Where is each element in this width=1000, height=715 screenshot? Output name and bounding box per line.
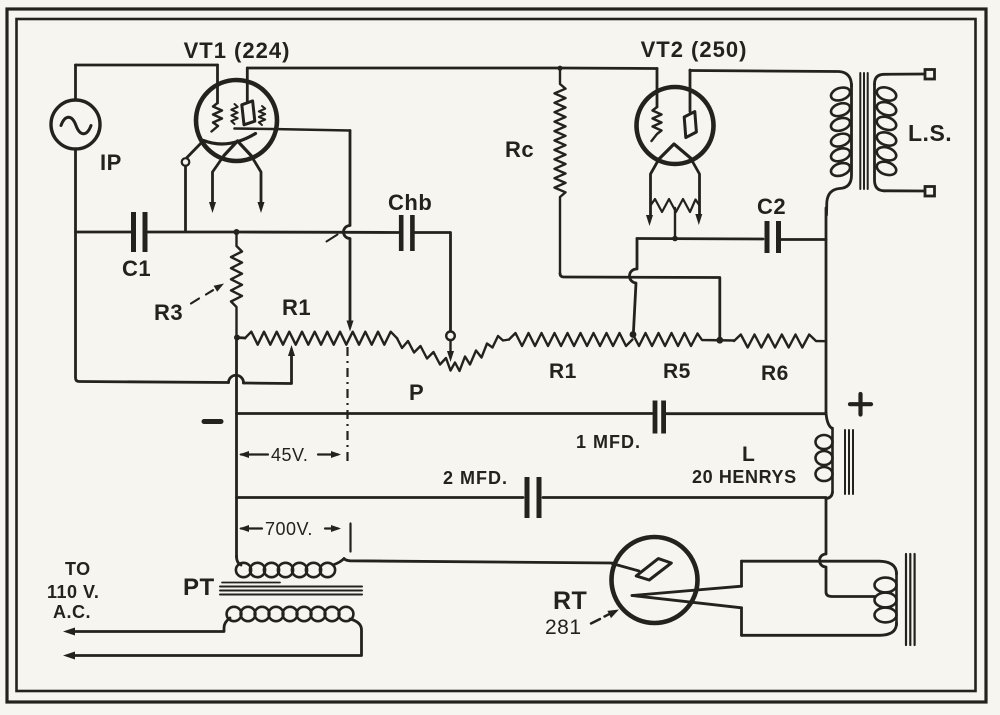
heater arrow right [695, 214, 702, 225]
hum-balance center tap [674, 208, 676, 239]
dim 45V arrow left [241, 453, 268, 455]
filament transformer top rail [742, 561, 897, 574]
svg-text:PT: PT [183, 574, 215, 601]
wire minus rail right [666, 412, 826, 415]
lower wiper arrow up [288, 345, 295, 356]
svg-text:1 MFD.: 1 MFD. [576, 432, 641, 452]
tube VT1 envelope [196, 80, 277, 161]
P wiper arrow [449, 341, 451, 353]
svg-text:C2: C2 [757, 194, 786, 219]
PT core lines [222, 582, 280, 584]
svg-text:281: 281 [545, 616, 582, 639]
VT2 heater lead right [691, 158, 700, 216]
wire plate rail VT1 to VT2 [247, 67, 657, 70]
VT1 plate lead up [246, 68, 249, 101]
wire IP to C1 [76, 231, 132, 234]
svg-text:TO: TO [65, 559, 91, 579]
capacitor C2 plates [765, 221, 770, 253]
svg-text:L: L [742, 443, 755, 466]
junction dot R3 bottom [234, 335, 240, 341]
wire grid return with hop [629, 239, 637, 332]
output transformer secondary loops [875, 85, 898, 103]
resistor R1 lower zigzag [509, 333, 633, 346]
svg-text:R1: R1 [549, 360, 577, 383]
wire junction to Chb [237, 231, 399, 234]
wire IP return lead down [76, 149, 229, 383]
svg-text:L.S.: L.S. [908, 120, 952, 146]
resistor Rc [555, 68, 566, 274]
RT plate symbol [636, 559, 671, 580]
wire 2MFD rail right [543, 496, 826, 499]
tube VT2 envelope [637, 87, 714, 164]
VT2 plate symbol [684, 112, 696, 138]
svg-text:P: P [409, 380, 424, 405]
wire top rail to VT1 grid [76, 64, 218, 67]
PT primary loops [236, 563, 251, 577]
svg-text:R5: R5 [663, 360, 691, 383]
resistor R6 zigzag [734, 335, 826, 348]
VT1 screen bottom lead [235, 129, 351, 131]
svg-text:A.C.: A.C. [53, 602, 91, 622]
svg-text:RT: RT [553, 587, 587, 615]
label minus sign [204, 419, 221, 424]
filament winding loops [875, 578, 897, 593]
tube RT envelope [612, 537, 698, 623]
wire cathode terminal down [184, 166, 187, 231]
RT filament upper arm [632, 586, 742, 595]
capacitor Chb plates [399, 215, 404, 251]
wire VT1 grid drop [216, 65, 219, 103]
VT2 plate lead up [689, 70, 692, 112]
wire stub to R1 pot [237, 336, 246, 339]
resistor R3 zigzag [231, 232, 242, 338]
wire choke to rectifier CT with hop [820, 499, 876, 597]
dim 700V tick [349, 524, 351, 552]
wire left bus R3 to PT [235, 338, 238, 558]
VT2 grid lead drop [656, 69, 659, 108]
junction dot C1 rail [234, 229, 240, 235]
PT primary entry [237, 556, 242, 565]
VT2 control grid zigzag [652, 107, 662, 141]
wire C2 to plus rail [781, 238, 826, 241]
VT1 control grid zigzag [212, 103, 223, 132]
signal source IP circle [51, 100, 100, 149]
VT2 heater triangle [659, 144, 691, 159]
choke L spine [831, 428, 834, 492]
svg-text:Chb: Chb [388, 190, 432, 215]
VT1 cathode arc [204, 134, 256, 144]
VT1 cathode lead to terminal [187, 141, 204, 158]
output transformer secondary top lead [875, 74, 925, 84]
RT filament lower arm [632, 596, 742, 608]
svg-text:45V.: 45V. [271, 445, 308, 465]
speaker terminal bottom [925, 187, 935, 197]
PT primary right lead [333, 559, 612, 566]
P wiper terminal circle [446, 332, 455, 341]
VT1 heater lead left with arrow [213, 156, 225, 205]
svg-text:R3: R3 [154, 300, 183, 325]
dim 45V arrow right [318, 453, 338, 455]
filament transformer left edge top [740, 561, 743, 586]
wire hum tap rail to C2 [637, 237, 763, 240]
output transformer secondary spine [875, 84, 885, 191]
svg-text:VT1 (224): VT1 (224) [184, 38, 291, 63]
junction dot R5-R6 tap [716, 337, 723, 344]
wire IP top lead [74, 65, 77, 100]
hop over R3 vertical [229, 375, 244, 383]
wire Chb to P wiper drop [415, 233, 451, 332]
VT1 plate symbol [242, 101, 255, 125]
svg-text:Rc: Rc [505, 137, 534, 162]
dim 700V arrow left [241, 527, 262, 529]
R3 pointer dashed arrow [191, 299, 199, 304]
hum-balance resistor zigzag [651, 199, 700, 212]
wire PT to RT plate [612, 564, 639, 572]
svg-text:2 MFD.: 2 MFD. [443, 468, 508, 488]
svg-text:R1: R1 [282, 295, 311, 320]
stray diagonal tick [327, 235, 338, 242]
heater arrow left [646, 215, 653, 226]
svg-text:C1: C1 [122, 256, 151, 281]
junction dot center tap [672, 236, 678, 242]
choke bottom curve [826, 492, 833, 499]
wire plus rail vertical [825, 208, 828, 413]
VT1 heater triangle [224, 141, 251, 156]
dim 700V arrow right [325, 527, 338, 529]
PT secondary right lead to AC [72, 619, 362, 656]
wire C1 to junction [148, 231, 237, 234]
wire Rc bottom to R5-R6 tap [560, 274, 720, 341]
potentiometer P v-shaped zigzag [397, 336, 509, 371]
resistor R5 zigzag [633, 333, 734, 346]
wire minus rail left [237, 412, 653, 415]
svg-text:R6: R6 [761, 362, 789, 385]
svg-text:700V.: 700V. [265, 519, 313, 539]
VT1 screen grid right zigzag [259, 106, 265, 125]
svg-text:VT2 (250): VT2 (250) [641, 37, 748, 62]
label plus sign [858, 394, 862, 415]
svg-text:110 V.: 110 V. [47, 582, 99, 602]
svg-text:IP: IP [100, 150, 122, 175]
wire screen drop with hop over C1 rail [344, 131, 350, 321]
PT secondary left lead to AC [72, 618, 230, 632]
RT pointer dashed arrow [591, 619, 600, 624]
PT secondary loops [227, 607, 242, 621]
potentiometer R1 zigzag [245, 332, 397, 345]
VT2 heater lead left [651, 159, 660, 216]
filament transformer left edge bottom [740, 608, 743, 636]
VT1 heater lead right with arrow [251, 156, 261, 205]
wire 2MFD rail left [237, 496, 524, 499]
speaker terminal top [925, 70, 935, 80]
capacitor 1 MFD plates [653, 401, 658, 434]
choke core lines [844, 430, 846, 494]
junction dot at Rc top [557, 66, 562, 71]
dash-dot 45V reference line [346, 347, 348, 462]
capacitor 2 MFD plates [525, 477, 530, 518]
choke L loops [816, 435, 833, 449]
wire VT2 plate to output transformer [690, 71, 852, 87]
output transformer secondary bottom lead [884, 189, 924, 192]
output transformer core lines [859, 73, 861, 189]
output transformer primary spine [827, 84, 852, 215]
filament winding spine [895, 572, 898, 625]
wire to lower wiper [244, 353, 292, 384]
filament transformer core lines [905, 554, 907, 645]
choke top curve [826, 413, 832, 429]
svg-text:20 HENRYS: 20 HENRYS [692, 467, 797, 487]
VT1 screen grid left zigzag [231, 104, 237, 124]
VT1 cathode terminal circle [182, 158, 190, 166]
sine symbol inside IP [61, 117, 91, 134]
output transformer primary loops [829, 85, 851, 102]
capacitor C1 plates [131, 212, 136, 252]
filament transformer bottom rail [742, 623, 897, 635]
junction dot R1-R5 tap [630, 331, 637, 338]
